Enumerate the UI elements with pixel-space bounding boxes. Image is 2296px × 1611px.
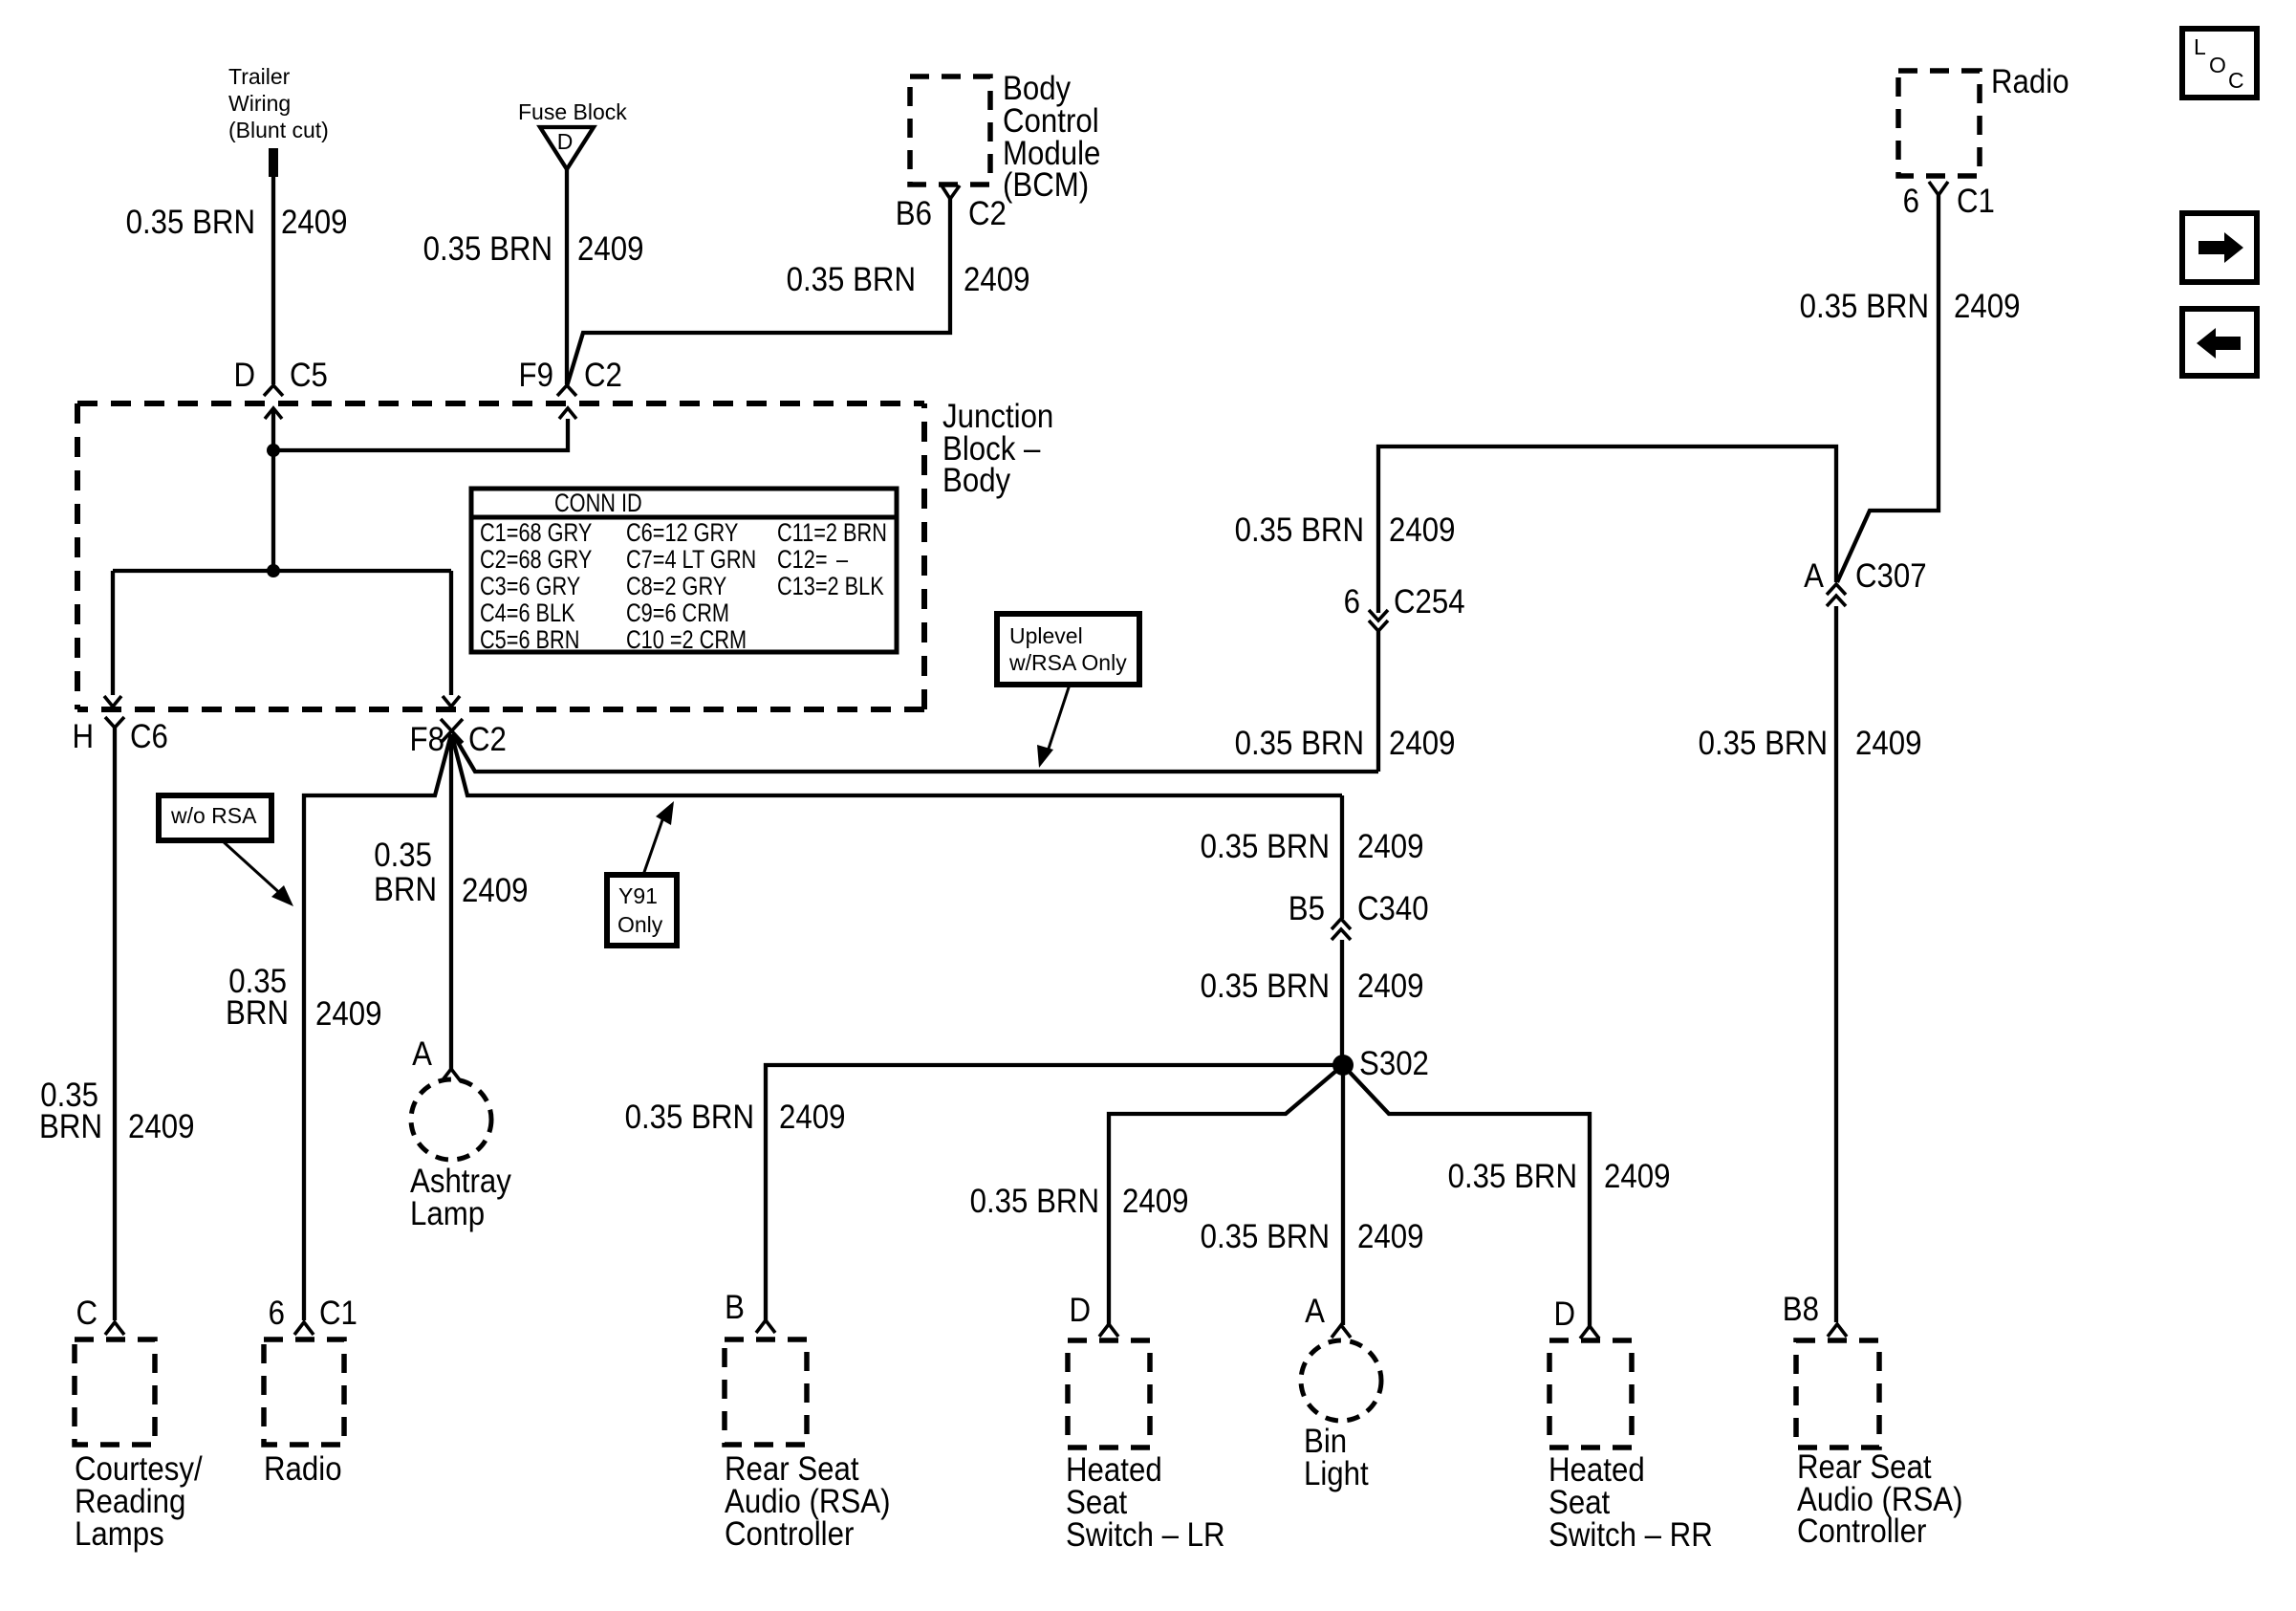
svg-text:C254: C254: [1394, 583, 1465, 620]
wire F8-C2 to ashtray lamp: [374, 734, 528, 1069]
wire C307 to RSA controller B8: [1699, 606, 1922, 1322]
Y91 only callout box: [607, 875, 677, 946]
svg-text:Trailer: Trailer: [228, 64, 291, 89]
svg-text:2409: 2409: [462, 872, 528, 909]
svg-text:C2: C2: [584, 357, 622, 394]
connector pin A at ashtray lamp: [412, 1035, 461, 1081]
junction block internal arrow at H/C6 exit: [104, 696, 121, 707]
svg-text:6: 6: [269, 1295, 285, 1332]
svg-text:C8=2 GRY: C8=2 GRY: [626, 573, 726, 601]
heated seat switch LR box: [1066, 1340, 1225, 1554]
svg-text:A: A: [412, 1035, 432, 1073]
svg-text:C6: C6: [130, 718, 168, 755]
svg-text:S302: S302: [1359, 1045, 1429, 1082]
svg-text:D: D: [557, 129, 574, 154]
bin light circle: [1301, 1340, 1381, 1492]
trailer wiring blunt cut terminal: [228, 64, 329, 177]
svg-text:0.35 BRN: 0.35 BRN: [1201, 1218, 1330, 1255]
wire Y91 path down to C340: [1201, 795, 1424, 919]
svg-text:2409: 2409: [315, 995, 381, 1033]
junction node splice to F9: [267, 444, 280, 457]
svg-text:Light: Light: [1304, 1455, 1369, 1492]
svg-text:2409: 2409: [281, 204, 347, 241]
svg-text:0.35 BRN: 0.35 BRN: [1201, 968, 1330, 1005]
svg-text:2409: 2409: [128, 1108, 194, 1145]
junction node splice to H and F8: [267, 564, 280, 577]
svg-text:B: B: [725, 1289, 745, 1326]
svg-text:C1: C1: [1957, 183, 1995, 220]
svg-text:0.35 BRN: 0.35 BRN: [1699, 725, 1828, 762]
svg-text:6: 6: [1903, 183, 1919, 220]
svg-text:F9: F9: [519, 357, 553, 394]
svg-text:Controller: Controller: [725, 1515, 854, 1553]
svg-text:C5: C5: [290, 357, 328, 394]
connector pin B at RSA controller left: [725, 1289, 775, 1333]
svg-text:2409: 2409: [1357, 968, 1423, 1005]
svg-text:2409: 2409: [964, 261, 1029, 298]
svg-text:C340: C340: [1357, 890, 1429, 927]
connector C5 pin D: [233, 357, 327, 396]
svg-text:C5=6 BRN: C5=6 BRN: [480, 626, 579, 655]
wire S302 to heated seat switch LR: [970, 1065, 1343, 1324]
svg-text:2409: 2409: [1389, 512, 1455, 549]
svg-text:BRN: BRN: [226, 994, 289, 1032]
svg-text:Switch – RR: Switch – RR: [1549, 1516, 1713, 1554]
svg-text:C9=6 CRM: C9=6 CRM: [626, 599, 729, 628]
svg-text:0.35 BRN: 0.35 BRN: [423, 230, 552, 268]
rear seat audio RSA controller box right: [1796, 1340, 1963, 1550]
svg-text:2409: 2409: [1855, 725, 1921, 762]
svg-text:6: 6: [1344, 583, 1360, 620]
svg-text:L: L: [2194, 34, 2206, 59]
svg-text:(BCM): (BCM): [1003, 166, 1089, 204]
wire BCM B6 to junction block F9: [567, 199, 1029, 386]
svg-text:H: H: [72, 718, 94, 755]
svg-text:0.35 BRN: 0.35 BRN: [1235, 725, 1364, 762]
svg-text:Y91: Y91: [618, 883, 658, 908]
connector C1 pin 6 at radio bottom: [269, 1295, 357, 1335]
svg-text:C12=: C12=: [777, 546, 828, 575]
forward navigation arrow box: [2182, 213, 2257, 282]
connector C6 pin H: [72, 717, 167, 755]
svg-text:0.35 BRN: 0.35 BRN: [970, 1183, 1099, 1220]
svg-text:C3=6 GRY: C3=6 GRY: [480, 573, 580, 601]
junction block internal arrow at D/C5 entry: [265, 408, 282, 419]
connector C307 pin A: [1804, 557, 1926, 606]
CONN ID table: [471, 489, 897, 655]
w/o RSA callout arrow: [222, 840, 293, 906]
svg-text:C: C: [2228, 68, 2244, 93]
svg-text:C13=2 BLK: C13=2 BLK: [777, 573, 884, 601]
svg-text:0.35 BRN: 0.35 BRN: [1448, 1158, 1577, 1195]
ashtray lamp circle: [410, 1079, 511, 1232]
body control module BCM box: [910, 70, 1100, 204]
svg-text:B8: B8: [1783, 1291, 1819, 1328]
connector pin D at heated seat switch LR: [1069, 1292, 1118, 1337]
svg-text:w/o RSA: w/o RSA: [170, 803, 257, 828]
svg-text:2409: 2409: [779, 1099, 845, 1136]
svg-text:C2: C2: [468, 721, 507, 758]
Y91 callout arrow: [643, 801, 674, 875]
svg-text:2409: 2409: [1357, 1218, 1423, 1255]
back navigation arrow box: [2182, 309, 2257, 376]
svg-text:0.35 BRN: 0.35 BRN: [1201, 828, 1330, 865]
radio box top right: [1898, 63, 2069, 176]
wire C340 to splice S302: [1201, 940, 1424, 1065]
connector C254 pin 6: [1344, 583, 1465, 631]
svg-text:2409: 2409: [577, 230, 643, 268]
svg-text:O: O: [2209, 53, 2226, 77]
svg-text:D: D: [233, 357, 255, 394]
svg-text:C7=4 LT GRN: C7=4 LT GRN: [626, 546, 756, 575]
wire junction run to C307 and C254: [1235, 446, 1836, 613]
svg-text:BRN: BRN: [374, 871, 437, 908]
svg-text:C6=12 GRY: C6=12 GRY: [626, 519, 738, 548]
wire S302 to heated seat switch RR: [1343, 1065, 1670, 1326]
svg-text:0.35 BRN: 0.35 BRN: [625, 1099, 754, 1136]
wire F8-C2 uplevel path to C254: [453, 734, 1378, 772]
svg-text:Controller: Controller: [1797, 1513, 1926, 1550]
connector pin A at bin light: [1305, 1293, 1351, 1338]
svg-text:Uplevel: Uplevel: [1009, 623, 1083, 648]
svg-text:C1=68 GRY: C1=68 GRY: [480, 519, 592, 548]
svg-text:Fuse Block: Fuse Block: [518, 99, 627, 124]
svg-text:–: –: [836, 546, 849, 575]
svg-text:0.35 BRN: 0.35 BRN: [787, 261, 916, 298]
splice S302: [1332, 1045, 1429, 1082]
courtesy reading lamps box: [75, 1339, 203, 1553]
connector C2 pin B6 at BCM: [896, 185, 1007, 232]
internal wire splice to H-C6 and F8-C2: [113, 571, 451, 695]
wire fuse block to C2 pin F9: [423, 168, 644, 384]
LOC legend box: [2182, 29, 2257, 98]
svg-text:A: A: [1804, 557, 1824, 595]
svg-text:D: D: [1553, 1295, 1575, 1333]
svg-text:C307: C307: [1855, 557, 1927, 595]
svg-text:CONN ID: CONN ID: [554, 490, 642, 518]
connector C1 pin 6 at radio: [1903, 182, 1995, 220]
junction block internal wire from C5-D down: [271, 408, 275, 571]
svg-text:C10 =2 CRM: C10 =2 CRM: [626, 626, 747, 655]
svg-text:0.35 BRN: 0.35 BRN: [1800, 288, 1929, 325]
svg-text:w/RSA Only: w/RSA Only: [1008, 650, 1127, 675]
connector pin C at courtesy lamps: [76, 1295, 124, 1335]
svg-text:A: A: [1305, 1293, 1325, 1330]
uplevel w/RSA only callout box: [997, 614, 1139, 685]
wire trailer to C5 pin D: [126, 175, 348, 384]
uplevel callout arrow: [1037, 685, 1070, 768]
svg-text:Only: Only: [617, 912, 663, 937]
wire S302 to bin light: [1201, 1065, 1424, 1325]
svg-text:Wiring: Wiring: [228, 91, 291, 116]
svg-text:Lamp: Lamp: [410, 1195, 485, 1232]
svg-text:(Blunt cut): (Blunt cut): [228, 118, 329, 142]
junction block internal arrow at F9/C2 entry: [559, 408, 576, 419]
svg-text:C2: C2: [968, 195, 1007, 232]
svg-text:C2=68 GRY: C2=68 GRY: [480, 546, 592, 575]
svg-text:2409: 2409: [1357, 828, 1423, 865]
svg-text:C: C: [76, 1295, 97, 1332]
fuse block symbol D: [518, 99, 627, 169]
svg-text:2409: 2409: [1954, 288, 2020, 325]
connector C2 pin F9: [519, 357, 622, 396]
connector pin B8 at RSA controller right: [1783, 1291, 1847, 1337]
svg-text:BRN: BRN: [39, 1108, 102, 1145]
rear seat audio RSA controller box left: [725, 1339, 891, 1553]
svg-text:0.35: 0.35: [374, 837, 432, 874]
junction block body dashed border: [77, 398, 1053, 709]
svg-text:Radio: Radio: [264, 1450, 342, 1488]
heated seat switch RR box: [1549, 1340, 1713, 1554]
svg-text:B5: B5: [1289, 890, 1325, 927]
svg-text:F8: F8: [410, 721, 444, 758]
svg-text:2409: 2409: [1122, 1183, 1188, 1220]
wire F8-C2 to radio 6-C1: [226, 734, 451, 1320]
wire S302 to RSA controller B: [625, 1065, 1343, 1320]
svg-text:C4=6 BLK: C4=6 BLK: [480, 599, 575, 628]
connector C340 pin B5: [1289, 890, 1429, 940]
svg-text:B6: B6: [896, 195, 932, 232]
wire F8-C2 Y91 path to C340: [452, 736, 1342, 795]
w/o RSA callout box: [159, 795, 271, 840]
svg-text:Switch – LR: Switch – LR: [1066, 1516, 1225, 1554]
svg-text:0.35 BRN: 0.35 BRN: [126, 204, 255, 241]
wire H-C6 to courtesy reading lamps: [39, 728, 194, 1320]
svg-text:Radio: Radio: [1991, 63, 2069, 100]
svg-text:Body: Body: [942, 462, 1010, 499]
svg-text:2409: 2409: [1389, 725, 1455, 762]
svg-text:D: D: [1069, 1292, 1091, 1329]
svg-text:C11=2 BRN: C11=2 BRN: [777, 519, 887, 548]
radio box bottom: [264, 1339, 344, 1488]
connector pin D at heated seat switch RR: [1553, 1295, 1599, 1339]
svg-text:0.35 BRN: 0.35 BRN: [1235, 512, 1364, 549]
connector C2 pin F8: [410, 719, 507, 758]
wire C254 to uplevel horizontal: [1235, 631, 1456, 772]
wire splice to F9 internal: [273, 419, 568, 450]
svg-text:C1: C1: [319, 1295, 357, 1332]
wire radio C1 to C307: [1800, 195, 2021, 582]
svg-text:Lamps: Lamps: [75, 1515, 164, 1553]
junction block internal arrow at F8/C2 exit: [443, 696, 460, 707]
svg-text:2409: 2409: [1604, 1158, 1670, 1195]
